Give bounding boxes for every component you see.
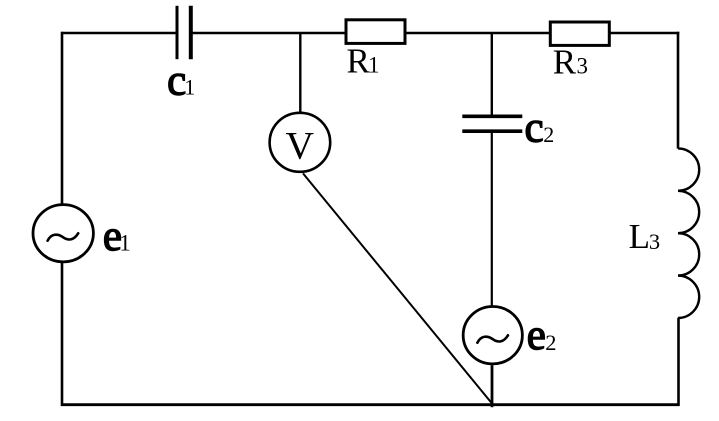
- svg-text:L: L: [629, 217, 650, 256]
- svg-text:3: 3: [649, 229, 660, 254]
- voltmeter V (circle): [270, 113, 331, 172]
- wire: left rail upper (corner to e1 top): [61, 32, 64, 204]
- svg-text:R: R: [553, 43, 577, 82]
- svg-text:1: 1: [368, 53, 380, 78]
- wire: top rail R3 to top-right corner: [610, 32, 680, 35]
- tilde of e1: [48, 233, 79, 240]
- inductor L3 (coil, 4 arcs): [678, 148, 699, 318]
- wire: C2 branch drop (top rail to C2 top plate): [491, 33, 493, 115]
- capacitor C2 (plates): [462, 116, 522, 131]
- wire: diagonal voltmeter lead to bottom node: [303, 173, 492, 403]
- svg-text:c: c: [525, 104, 544, 151]
- wire: e2 bottom to bottom rail: [491, 365, 494, 407]
- svg-text:1: 1: [184, 75, 195, 100]
- wire: left rail lower (e1 bottom to bottom-left corner): [61, 263, 64, 406]
- svg-text:R: R: [347, 42, 371, 81]
- resistor R3: [550, 22, 609, 45]
- source e2 (circle): [463, 307, 522, 364]
- wire: right rail lower (L3 to bottom-right corner): [677, 318, 680, 406]
- svg-text:3: 3: [577, 54, 589, 79]
- wire: C2 bottom plate to e2 top: [491, 133, 493, 306]
- capacitor C1 (plates): [177, 6, 191, 59]
- svg-text:V: V: [286, 123, 315, 167]
- svg-text:1: 1: [119, 231, 131, 256]
- wire: right rail upper (top-right corner to L3): [677, 32, 680, 149]
- wire: top rail left segment (corner to C1 left plate): [62, 32, 177, 35]
- svg-text:2: 2: [545, 330, 556, 355]
- source e1 (circle): [33, 205, 93, 262]
- wire: V branch drop (top rail to voltmeter): [299, 33, 301, 112]
- svg-text:e: e: [527, 312, 546, 359]
- svg-text:2: 2: [543, 122, 554, 147]
- tilde of e2: [477, 335, 508, 342]
- resistor R1: [346, 20, 405, 44]
- wire: top rail R1 to R3 (through node at x=492): [405, 32, 549, 35]
- wire: top rail C1 to R1: [191, 32, 345, 35]
- wire: bottom rail: [61, 403, 679, 406]
